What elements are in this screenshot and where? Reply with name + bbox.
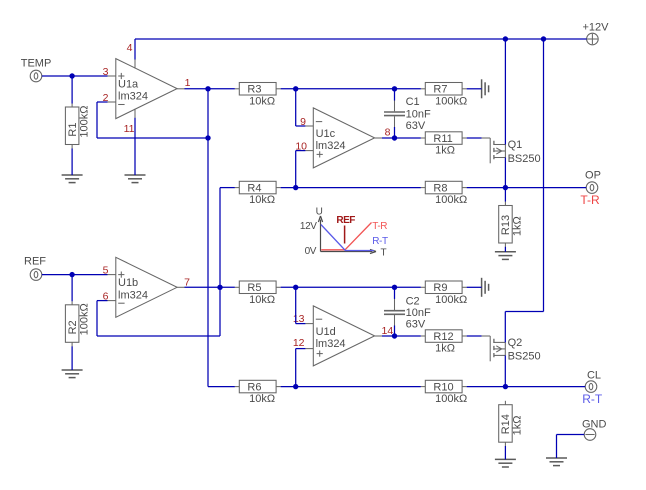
junction C1 bottom/U1c out (392, 135, 397, 140)
svg-text:U1a: U1a (118, 79, 139, 91)
junction TEMP/R1 (69, 73, 74, 78)
svg-text:100kΩ: 100kΩ (78, 303, 90, 335)
wire Q2 source horizontal (505, 311, 543, 313)
wire pin11 down (134, 118, 136, 175)
svg-text:10kΩ: 10kΩ (249, 95, 275, 107)
wire GND left (557, 434, 585, 436)
wire R1 to ground (71, 149, 73, 176)
svg-text:1kΩ: 1kΩ (435, 343, 455, 355)
junction Q1 drain/R13 (503, 185, 508, 190)
resistor R2 (65, 301, 90, 346)
resistor R3 (235, 83, 281, 108)
svg-text:Q2: Q2 (508, 337, 523, 349)
svg-text:1: 1 (185, 77, 191, 89)
junction C1 top (392, 86, 397, 91)
svg-text:100kΩ: 100kΩ (435, 294, 467, 306)
resistor R8 (421, 181, 467, 206)
svg-text:100kΩ: 100kΩ (435, 393, 467, 405)
svg-text:lm324: lm324 (316, 338, 346, 350)
svg-text:R14: R14 (500, 414, 512, 434)
connector +12V (583, 22, 610, 45)
svg-text:C2: C2 (406, 295, 420, 307)
wire R4 tap vertical (219, 188, 221, 336)
ground (U1a pin 11) (125, 175, 146, 183)
resistor R7 (421, 83, 467, 108)
ground (after R9, rotated) (482, 278, 489, 297)
svg-text:R-T: R-T (372, 236, 388, 247)
resistor R12 (421, 330, 467, 355)
svg-text:R11: R11 (433, 133, 452, 145)
resistor R11 (421, 132, 467, 157)
resistor R14 (499, 401, 524, 446)
svg-text:12: 12 (293, 337, 305, 349)
svg-text:CL: CL (587, 369, 601, 381)
wire U1a out to R3 (185, 88, 235, 90)
wire R13 to ground (504, 247, 506, 252)
svg-text:11: 11 (124, 123, 135, 135)
graph inset: REF marker (336, 215, 355, 243)
wire R4 left to U1b out (220, 187, 235, 189)
svg-text:1kΩ: 1kΩ (512, 415, 524, 435)
wire R7 to ground (467, 88, 482, 90)
resistor R5 (235, 281, 281, 306)
wire REF junction to R2 (71, 275, 73, 302)
resistor R10 (421, 380, 467, 405)
wire R9 to ground (467, 286, 482, 288)
svg-text:R6: R6 (247, 381, 261, 393)
wire OP row (281, 187, 421, 189)
wire R6 left (208, 386, 235, 388)
junction R5/pin13 (293, 285, 298, 290)
wire Q2 source vertical (504, 312, 506, 343)
ground (under R2) (62, 370, 83, 378)
wire Q1 source (504, 39, 506, 145)
graph inset: R-T curve (321, 225, 388, 251)
svg-text:63V: 63V (406, 120, 426, 132)
ground (GND net) (546, 458, 567, 466)
wire R11 to Q1 gate (467, 137, 482, 139)
transistor Q2 (481, 336, 540, 363)
svg-text:10nF: 10nF (406, 109, 431, 121)
svg-text:100kΩ: 100kΩ (435, 194, 467, 206)
wire pin13 drop (295, 287, 297, 323)
junction R6/pin12 (293, 384, 298, 389)
wire +12V rail (135, 38, 587, 40)
wire pin13 stub (296, 323, 306, 325)
svg-text:10kΩ: 10kΩ (249, 393, 275, 405)
svg-text:T: T (381, 248, 387, 259)
wire CL row (281, 386, 421, 388)
op-amp U1a (107, 59, 184, 119)
svg-text:8: 8 (385, 126, 391, 138)
junction U1a out (205, 86, 210, 91)
svg-text:BS250: BS250 (508, 153, 541, 165)
svg-text:7: 7 (184, 276, 190, 288)
svg-text:GND: GND (582, 419, 607, 431)
wire R8 to OP (467, 187, 587, 189)
svg-text:R5: R5 (247, 282, 261, 294)
svg-text:R1: R1 (67, 123, 79, 137)
connector REF (24, 256, 46, 281)
wire C2 bottom (394, 326, 396, 337)
svg-text:R-T: R-T (582, 392, 603, 406)
wire U1a output vertical (207, 89, 209, 387)
wire feedback U1a (97, 137, 208, 139)
svg-text:OP: OP (585, 170, 601, 182)
ground (after R7, rotated) (482, 79, 489, 98)
svg-text:C1: C1 (406, 96, 420, 108)
ground (under R13) (495, 252, 516, 260)
ground (under R14) (495, 459, 516, 467)
svg-text:U1b: U1b (118, 277, 138, 289)
svg-text:T-R: T-R (372, 221, 387, 232)
wire TEMP to pin3 (42, 75, 108, 77)
svg-text:R13: R13 (500, 215, 512, 235)
junction rail/Q2 (541, 36, 546, 41)
svg-text:R9: R9 (433, 282, 447, 294)
wire C1 bottom (394, 127, 396, 138)
connector GND (582, 419, 607, 441)
svg-text:12V: 12V (300, 221, 317, 232)
svg-text:1kΩ: 1kΩ (435, 145, 455, 157)
wire pin6 left (97, 300, 108, 302)
wire pin2 left (97, 101, 108, 103)
junction R3/pin9 (293, 86, 298, 91)
wire C1 top (394, 89, 396, 101)
svg-text:lm324: lm324 (316, 140, 346, 152)
svg-text:lm324: lm324 (118, 91, 148, 103)
wire pin6 down (96, 301, 98, 336)
resistor R4 (235, 181, 281, 206)
wire R12 to Q2 gate (467, 335, 482, 337)
wire U1b out to R5 (185, 286, 235, 288)
wire pin12 drop (295, 349, 297, 387)
wire TEMP junction to R1 (71, 76, 73, 104)
svg-text:R12: R12 (433, 331, 453, 343)
svg-text:1kΩ: 1kΩ (512, 216, 524, 236)
svg-text:10kΩ: 10kΩ (249, 194, 275, 206)
wire feedback U1b (97, 335, 220, 337)
svg-text:100kΩ: 100kΩ (78, 106, 90, 138)
wire R2 to ground (71, 346, 73, 370)
op-amp U1d (305, 306, 382, 366)
wire U1d out to R12 (382, 335, 421, 337)
wire R5 to C2 rail (281, 286, 421, 288)
svg-text:U: U (316, 207, 323, 218)
resistor R1 (65, 103, 90, 148)
svg-text:T-R: T-R (580, 193, 600, 207)
wire pin10 drop (295, 151, 297, 188)
connector OP (580, 170, 601, 207)
svg-text:100kΩ: 100kΩ (435, 95, 467, 107)
wire pin4 up (134, 39, 136, 60)
junction U1b out/R4 tap (217, 285, 222, 290)
svg-text:REF: REF (24, 256, 46, 268)
junction rail/Q1 (503, 36, 508, 41)
svg-text:R4: R4 (247, 182, 261, 194)
wire C2 top (394, 287, 396, 299)
connector TEMP (21, 58, 52, 82)
wire Q2 rail drop (543, 39, 545, 312)
svg-text:TEMP: TEMP (21, 58, 52, 70)
resistor R13 (499, 202, 524, 247)
junction U1a feedback (205, 135, 210, 140)
svg-text:63V: 63V (406, 318, 426, 330)
graph inset: T axis (321, 248, 387, 259)
svg-text:+12V: +12V (583, 22, 610, 34)
connector CL (582, 369, 603, 406)
junction REF/R2 (69, 272, 74, 277)
wire R10 to CL (467, 386, 586, 388)
junction C2 top (392, 285, 397, 290)
svg-text:R8: R8 (433, 182, 447, 194)
ground (under R1) (62, 175, 83, 183)
capacitor C2 (384, 295, 431, 330)
wire R3 to C1 rail (281, 88, 421, 90)
resistor R9 (421, 281, 467, 306)
svg-text:lm324: lm324 (118, 289, 148, 301)
svg-text:14: 14 (382, 325, 394, 337)
svg-text:U1d: U1d (316, 326, 336, 338)
svg-text:Q1: Q1 (508, 139, 523, 151)
svg-text:R3: R3 (247, 84, 261, 96)
wire Q1 drain (504, 158, 506, 202)
svg-text:R2: R2 (67, 320, 79, 334)
graph inset: T-R curve (321, 221, 387, 250)
junction C2 bottom/U1d out (392, 333, 397, 338)
wire pin2 down (96, 102, 98, 138)
wire pin10 stub (296, 150, 306, 152)
wire R14 to ground (504, 446, 506, 459)
svg-text:10nF: 10nF (406, 307, 431, 319)
junction Q2 drain/R14 (503, 384, 508, 389)
resistor R6 (235, 380, 281, 405)
junction R4/pin10 (293, 185, 298, 190)
wire U1c out to R11 (382, 137, 421, 139)
wire Q2 drain (504, 355, 506, 386)
transistor Q1 (481, 138, 540, 165)
svg-text:4: 4 (127, 42, 133, 54)
svg-text:BS250: BS250 (508, 351, 541, 363)
wire pin9 drop (295, 89, 297, 126)
svg-text:10kΩ: 10kΩ (249, 294, 275, 306)
svg-text:U1c: U1c (316, 128, 336, 140)
graph inset: U axis (300, 207, 323, 257)
wire GND down (556, 435, 558, 459)
op-amp U1c (305, 108, 382, 168)
svg-text:0V: 0V (305, 246, 317, 257)
svg-text:REF: REF (336, 215, 355, 226)
op-amp U1b (107, 257, 184, 317)
wire pin12 stub (296, 348, 306, 350)
wire REF to pin5 (42, 274, 108, 276)
capacitor C1 (384, 96, 431, 132)
wire pin9 stub (296, 125, 306, 127)
svg-text:R7: R7 (433, 84, 447, 96)
svg-text:R10: R10 (433, 381, 453, 393)
